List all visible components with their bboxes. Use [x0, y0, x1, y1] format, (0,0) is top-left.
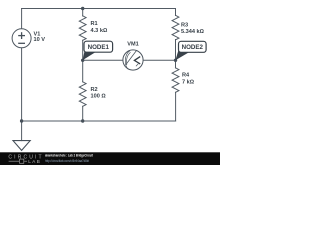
svg-text:http://circuitlab.com/c/5v94aa: http://circuitlab.com/c/5v94aa7d8kt — [45, 159, 89, 163]
NODE2 flag — [179, 41, 207, 52]
wire voltmeter left — [83, 59, 123, 61]
wire voltmeter right — [143, 59, 175, 61]
V1 minus sign — [18, 42, 25, 44]
voltmeter VM1 — [123, 50, 143, 70]
svg-text:NODE2: NODE2 — [182, 44, 204, 51]
svg-text:akanksharohete : Lab 2 BridgeC: akanksharohete : Lab 2 BridgeCircuit — [45, 154, 94, 158]
svg-text:R4: R4 — [182, 72, 190, 78]
junction bottom middle — [81, 119, 84, 122]
NODE1 flag pointer — [83, 50, 96, 60]
wire right vertical upper — [175, 9, 177, 16]
junction node A (left of meter) — [81, 59, 84, 62]
voltmeter dial arcs — [125, 50, 138, 69]
NODE2 flag pointer — [175, 50, 189, 60]
junction node B (right of meter) — [174, 59, 177, 62]
wire left vertical upper — [21, 9, 23, 29]
junction node top — [81, 7, 84, 10]
voltmeter needle tail — [136, 64, 138, 66]
wire right between R3 and R4 — [175, 40, 177, 69]
svg-text:R1: R1 — [91, 21, 98, 27]
wire middle branch upper — [82, 9, 84, 17]
footer bar — [0, 152, 220, 165]
wire top horizontal — [22, 8, 176, 10]
svg-text:LAB: LAB — [28, 159, 41, 165]
wire middle lower — [82, 106, 84, 121]
wire left vertical lower — [21, 48, 23, 141]
wire bottom horizontal — [22, 120, 176, 122]
svg-text:NODE1: NODE1 — [88, 44, 110, 51]
svg-text:VM1: VM1 — [127, 42, 139, 48]
resistor R1 — [79, 16, 86, 41]
wire middle between R1 and R2 — [82, 40, 84, 82]
V1 plus sign — [18, 32, 25, 43]
voltage source V1 — [12, 29, 31, 48]
svg-text:4.3 kΩ: 4.3 kΩ — [91, 28, 108, 34]
svg-text:5.344 kΩ: 5.344 kΩ — [181, 29, 205, 35]
resistor R3 — [172, 15, 179, 40]
NODE1 flag — [84, 41, 113, 52]
resistor R4 — [172, 68, 179, 93]
svg-text:100 Ω: 100 Ω — [91, 94, 107, 100]
junction bottom left — [20, 119, 23, 122]
voltmeter needle — [125, 50, 136, 65]
svg-text:10 V: 10 V — [34, 37, 46, 43]
svg-text:R2: R2 — [91, 87, 98, 93]
ground — [13, 141, 30, 151]
svg-text:7 kΩ: 7 kΩ — [182, 80, 195, 86]
wire right lower — [175, 92, 177, 121]
resistor R2 — [79, 82, 86, 107]
voltmeter arrow — [134, 57, 140, 64]
svg-text:R3: R3 — [181, 23, 188, 29]
